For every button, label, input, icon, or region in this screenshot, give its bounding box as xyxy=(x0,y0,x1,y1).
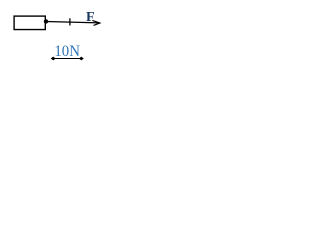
block M (rectangle) xyxy=(14,16,45,29)
wire (force line) xyxy=(46,22,100,23)
scale bar left diamond arrowhead xyxy=(51,57,56,61)
open arrowhead of force F xyxy=(92,20,99,25)
tick mark on force line xyxy=(69,18,71,25)
scale bar line xyxy=(53,58,81,60)
svg-text:10N: 10N xyxy=(54,43,80,60)
svg-text:F: F xyxy=(86,10,95,25)
attachment dot (node) xyxy=(44,19,48,23)
scale bar right diamond arrowhead xyxy=(79,57,84,61)
